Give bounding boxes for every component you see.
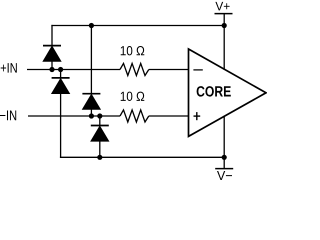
diode D3 (−IN to V+) — [82, 26, 100, 117]
label +IN — [1, 63, 17, 73]
diode D2 (V− to +IN) — [52, 70, 70, 158]
resistor R1 (10 ohm) zigzag — [120, 63, 149, 75]
label V+ — [215, 2, 229, 11]
D2 anode triangle — [52, 79, 70, 94]
node: V+ junction on rail — [222, 23, 227, 28]
node: D1 junction on +IN line — [49, 67, 54, 72]
core + input sign — [194, 112, 201, 120]
label −IN — [0, 111, 16, 121]
D1 cathode bar — [43, 45, 61, 47]
wire: D1 anode to +IN line — [51, 61, 53, 69]
V− terminal bar — [215, 168, 233, 170]
diode D4 (V− to −IN) — [91, 116, 109, 157]
node: D3 junction on V+ rail — [89, 23, 94, 28]
V+ terminal bar — [215, 13, 233, 15]
diode D1 (+IN to V+) — [43, 25, 61, 70]
label R1 value 10 Ω — [121, 46, 145, 55]
wire: D2 cathode to +IN line — [60, 70, 62, 78]
wire: +IN lead to resistor R1 — [27, 69, 120, 71]
node: D2 junction on +IN line — [58, 67, 63, 72]
node: D3 junction on −IN line — [89, 113, 94, 118]
D1 anode triangle — [43, 46, 61, 61]
resistor R2 (10 ohm) zigzag — [120, 110, 149, 122]
wire: D1 cathode to V+ rail — [51, 25, 53, 46]
label V− — [217, 171, 232, 180]
core − input sign — [193, 69, 202, 71]
wire: D4 cathode to −IN line — [99, 116, 101, 126]
D4 anode triangle — [91, 126, 109, 141]
wire: core bottom edge down to V− terminal — [223, 116, 225, 169]
wire: R2 to core + input — [149, 115, 189, 117]
wire: D3 anode to −IN line — [90, 109, 92, 116]
wire: −IN lead to resistor R2 — [28, 115, 120, 117]
wire: D4 anode to V− rail — [99, 141, 101, 157]
wire: V+ rail — [51, 25, 224, 27]
D4 cathode bar — [91, 125, 109, 127]
node: D4 junction on −IN line — [97, 113, 102, 118]
wire: V+ terminal down to core top edge — [223, 14, 225, 70]
node: D4 junction on V− rail — [97, 155, 102, 160]
label R2 value 10 Ω — [121, 92, 145, 101]
D3 cathode bar — [82, 93, 100, 95]
wire: R1 to core − input — [149, 69, 189, 71]
D3 anode triangle — [83, 95, 101, 110]
op-amp U1 CORE triangle — [189, 49, 267, 136]
wire: D2 anode down to V− rail — [60, 94, 62, 158]
wire: D3 cathode to V+ rail — [90, 26, 92, 94]
wire: V− rail — [60, 156, 224, 158]
label CORE — [197, 86, 231, 97]
node: V− junction on rail — [222, 155, 227, 160]
D2 cathode bar — [52, 77, 70, 79]
